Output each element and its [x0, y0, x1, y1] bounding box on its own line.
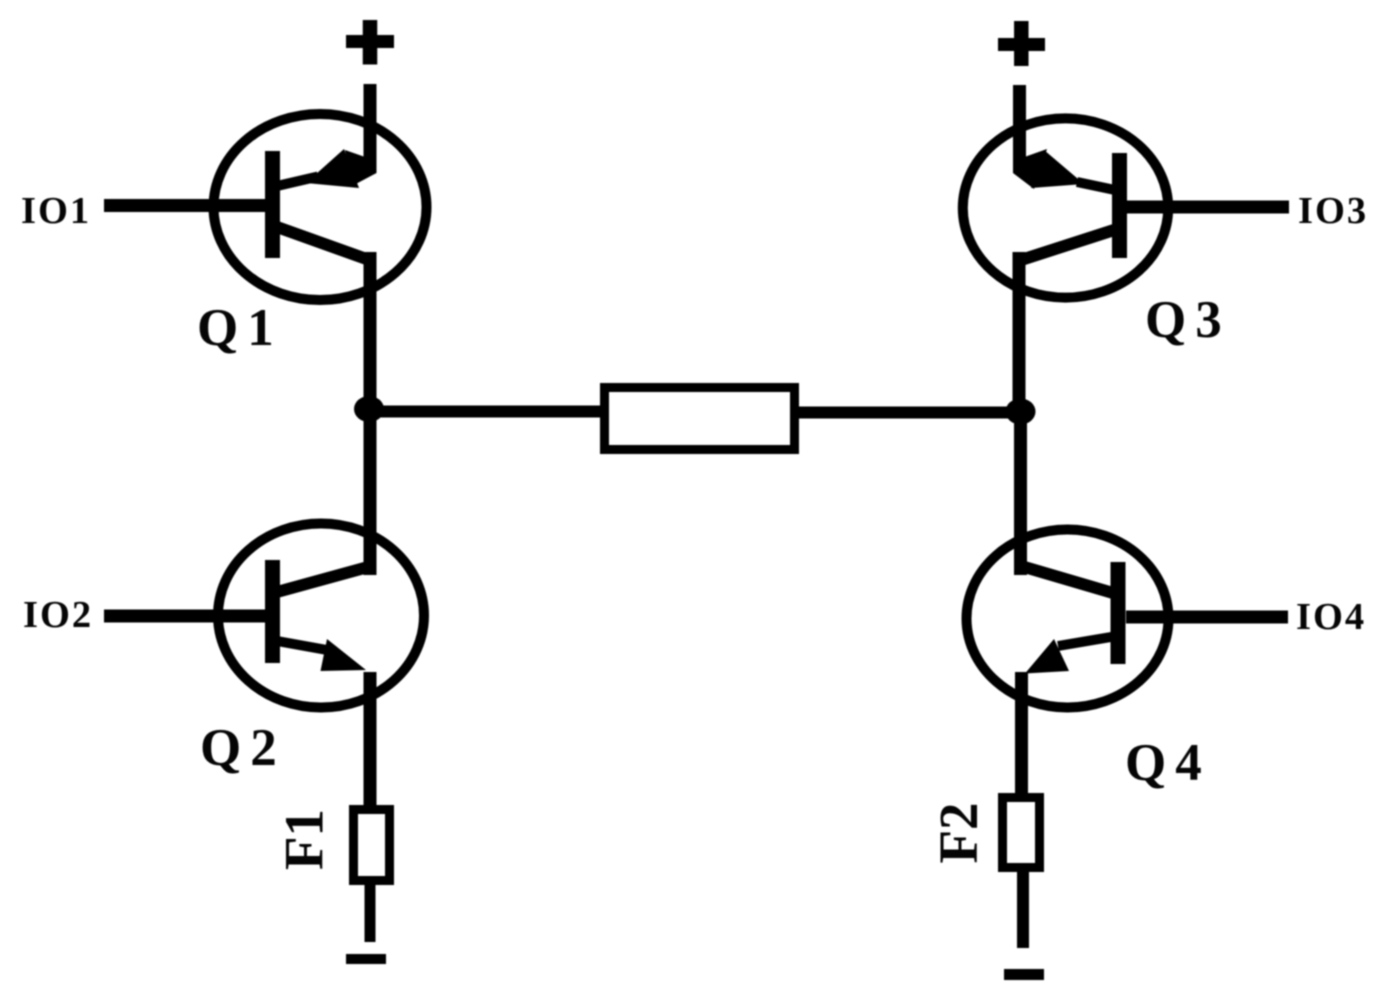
svg-text:Q1: Q1 — [197, 299, 283, 357]
transistor Q2 — [218, 524, 424, 708]
svg-text:IO1: IO1 — [21, 190, 91, 232]
svg-text:F1: F1 — [274, 809, 335, 870]
supply minus (right) — [1004, 969, 1044, 980]
wire fuse F2 to minus — [1017, 872, 1029, 948]
svg-text:Q4: Q4 — [1125, 734, 1211, 792]
wire node B to Q4 collector — [1014, 412, 1027, 575]
power + (right supply) — [998, 21, 1045, 66]
wire + to Q1 emitter — [364, 84, 377, 172]
base lead wire IO2 — [104, 610, 268, 623]
wire node A to Q2 collector — [364, 409, 377, 575]
transistor Q1 — [214, 114, 427, 300]
svg-text:IO3: IO3 — [1298, 190, 1368, 232]
fuse F2 — [1003, 798, 1040, 868]
power + (left supply) — [346, 20, 394, 65]
supply minus (left) — [346, 954, 386, 964]
wire Q3 collector to node B — [1013, 252, 1026, 412]
wire Q4 emitter to fuse F2 — [1015, 672, 1028, 796]
wire + to Q3 emitter — [1013, 85, 1026, 172]
transistor Q4 — [967, 530, 1169, 708]
base lead wire IO3 — [1126, 201, 1289, 214]
svg-text:Q2: Q2 — [200, 719, 286, 777]
fuse F1 — [354, 810, 390, 881]
svg-text:F2: F2 — [928, 802, 989, 863]
wire resistor to node B — [797, 407, 1021, 419]
base lead wire IO4 — [1126, 611, 1288, 624]
resistor R1 — [605, 388, 795, 450]
base lead wire IO1 — [104, 199, 268, 212]
svg-text:Q3: Q3 — [1145, 291, 1231, 349]
wire Q1 collector to node A — [364, 252, 377, 412]
node A junction dot — [354, 396, 384, 422]
wire Q2 emitter to fuse F1 — [364, 672, 377, 808]
node B junction dot — [1006, 399, 1036, 425]
svg-text:IO2: IO2 — [23, 594, 93, 636]
transistor Q3 — [963, 118, 1168, 297]
wire node A to resistor — [369, 406, 602, 418]
svg-text:IO4: IO4 — [1296, 596, 1366, 638]
wire fuse F1 to minus — [365, 885, 376, 942]
